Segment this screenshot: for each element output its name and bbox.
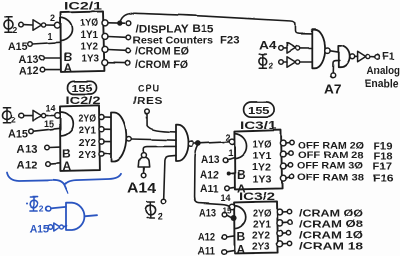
2-input AND gate (with A7) xyxy=(338,45,349,67)
wire A13 to pin 1 xyxy=(228,158,234,160)
IC2/2 output label 2Y3 xyxy=(79,150,97,161)
svg-text:2: 2 xyxy=(50,13,55,23)
blue inverter on A15 xyxy=(53,223,63,231)
svg-text:A7: A7 xyxy=(324,83,342,97)
inverter on A14 (drawn vertical) xyxy=(138,153,149,167)
svg-text:/CROM FØ: /CROM FØ xyxy=(135,59,188,71)
A14 terminal xyxy=(141,173,146,178)
wire A12 to A xyxy=(45,69,61,71)
IC IC2/1 body (74155 demux upper half) xyxy=(61,11,105,72)
wire A13 to B xyxy=(44,57,60,59)
IC3/1 1Y0 output bubble xyxy=(280,140,286,146)
terminal xyxy=(290,140,294,144)
IC2/1 pin number 1 xyxy=(48,32,53,42)
IC3/1 pin number 2 xyxy=(226,133,231,143)
wire xyxy=(286,142,290,144)
A15 terminal xyxy=(28,42,33,47)
IC2/1 1Y1 output bubble xyxy=(102,33,108,39)
A13 terminal xyxy=(222,212,227,217)
IC3/2 output label 2Y1 xyxy=(253,220,271,231)
wire xyxy=(355,55,358,57)
IC IC3/2 body (74155 demux lower half) xyxy=(234,201,278,253)
svg-text:A12: A12 xyxy=(19,65,39,77)
IC2/2 pin 14 bubble xyxy=(55,113,61,119)
clock phi2 input (mid) xyxy=(146,202,163,222)
inverter on phi2 xyxy=(287,57,300,68)
blue wire xyxy=(64,226,67,227)
wire A15 to pin 15 xyxy=(33,128,59,131)
signal label /CRAM 00 xyxy=(299,208,363,220)
input label A12 xyxy=(198,232,215,244)
IC2/1 1Y2 output bubble xyxy=(102,46,108,52)
CPU /RES terminal xyxy=(145,109,150,114)
wire xyxy=(104,128,111,130)
IC3/2 pin number 14 xyxy=(221,193,231,203)
svg-text:1YØ: 1YØ xyxy=(81,18,99,29)
svg-text:A: A xyxy=(237,243,246,256)
IC3/2 pin number 15 xyxy=(223,206,232,216)
svg-text:A15: A15 xyxy=(8,129,28,141)
svg-text:A13: A13 xyxy=(199,208,216,220)
A13 terminal xyxy=(223,158,228,163)
IC3/1 1Y2 output bubble xyxy=(280,163,286,169)
wire xyxy=(286,177,290,178)
wire xyxy=(109,22,125,24)
svg-text:Reset Counters: Reset Counters xyxy=(133,34,213,46)
wire xyxy=(330,50,338,51)
gate output bubble xyxy=(126,137,131,142)
1Y3 terminal xyxy=(125,61,130,66)
wire junction down to IC3/2 pin 14 xyxy=(195,146,230,207)
phi2 terminal xyxy=(279,60,284,65)
junction blob pin 15 xyxy=(231,215,237,221)
input label A15 xyxy=(8,41,28,53)
wire gate to CPU-reset NAND xyxy=(131,139,176,140)
A7 terminal xyxy=(330,73,335,78)
svg-text:2Y1: 2Y1 xyxy=(79,126,97,137)
wire A12 to B xyxy=(226,236,234,237)
IC3/1 pin 2 bubble xyxy=(229,139,234,144)
IC2/1 pin 2 bubble xyxy=(54,22,60,28)
wire A13 to B xyxy=(49,146,60,148)
svg-text:2YØ: 2YØ xyxy=(253,209,271,220)
phi2 terminal xyxy=(19,113,24,118)
A13 terminal xyxy=(45,145,50,150)
terminal xyxy=(286,231,290,235)
blue A15 terminal xyxy=(48,225,52,229)
terminal xyxy=(287,209,291,213)
svg-text:F23: F23 xyxy=(220,35,240,47)
signal label F1 xyxy=(383,51,395,63)
svg-text:Enable: Enable xyxy=(365,78,399,90)
address tag F18 xyxy=(374,152,393,163)
svg-text:/CROM EØ: /CROM EØ xyxy=(135,46,189,58)
svg-text:1Y2: 1Y2 xyxy=(252,163,271,174)
IC2/1 output label 1Y3 xyxy=(82,54,100,65)
wire A11 to A xyxy=(226,250,234,251)
part number oval (155) for IC3 xyxy=(244,102,275,117)
A11 terminal xyxy=(225,186,230,191)
IC2/1 1Y3 output bubble xyxy=(102,60,108,66)
signal label Analog xyxy=(367,65,400,77)
phi2 terminal xyxy=(161,199,166,204)
svg-text:F17: F17 xyxy=(373,162,392,173)
wire xyxy=(108,49,126,52)
wire xyxy=(282,221,288,223)
inverter on A4 xyxy=(287,43,300,54)
svg-text:1YØ: 1YØ xyxy=(253,140,272,151)
blue wire xyxy=(50,207,66,209)
gate output bubble xyxy=(325,48,330,53)
svg-text:15: 15 xyxy=(223,206,232,216)
wire xyxy=(300,61,312,63)
input label A4 xyxy=(259,38,277,52)
terminal xyxy=(289,151,293,155)
IC3/1 output label 1Y3 xyxy=(253,175,272,186)
IC3/2 2Y0 output bubble xyxy=(277,209,283,215)
signal label OFF RAM 30 xyxy=(297,161,363,172)
input label A15 xyxy=(8,129,28,141)
signal label OFF RAM 28 xyxy=(298,150,364,161)
A15 terminal xyxy=(29,129,34,134)
blue tick xyxy=(26,203,28,205)
wire xyxy=(286,152,289,155)
A13 terminal xyxy=(40,56,45,61)
junction node (1Y0 / DISPLAY) xyxy=(117,20,122,25)
IC3/2 pin 14 bubble xyxy=(229,204,234,209)
A12 terminal xyxy=(222,235,227,240)
input label A13 xyxy=(199,208,216,220)
gate output bubble xyxy=(350,54,355,59)
blue phi2 terminal xyxy=(46,206,51,211)
IC2/2 output label 2Y2 xyxy=(79,138,97,149)
svg-text:2: 2 xyxy=(13,25,18,35)
wire /RES down into NAND xyxy=(147,114,176,132)
IC2/1 output label 1Y0 xyxy=(81,18,99,29)
A12 terminal (ink blob) xyxy=(226,172,230,176)
wire A12 to A xyxy=(50,162,60,165)
input label A13 xyxy=(17,144,38,156)
IC U3 section 1 label IC3/1 xyxy=(240,120,277,132)
terminal xyxy=(289,175,293,179)
svg-text:14: 14 xyxy=(46,103,56,113)
svg-text:F16: F16 xyxy=(373,173,394,185)
IC3/2 pin A label xyxy=(237,243,246,256)
clock phi2 input (analog gate) xyxy=(259,54,274,70)
IC3/2 2Y1 output bubble xyxy=(277,220,283,226)
svg-text:OFF RAM 28: OFF RAM 28 xyxy=(298,150,364,161)
blue input label A15 xyxy=(30,224,49,236)
4-input NAND gate (2Y0-2Y3 combine) xyxy=(111,113,126,162)
blue AND gate (note sketch) xyxy=(66,203,84,230)
IC2/1 pin number 2 xyxy=(50,13,55,23)
svg-text:A15: A15 xyxy=(8,41,28,53)
blue wire output xyxy=(84,215,97,216)
wire xyxy=(282,211,287,213)
svg-text:A13: A13 xyxy=(201,154,220,166)
wire xyxy=(104,141,111,143)
IC U2 section 2 label IC2/2 xyxy=(66,95,101,107)
wire xyxy=(282,232,286,234)
wire A13 to pin 15 xyxy=(227,215,231,217)
svg-text:1: 1 xyxy=(228,148,233,158)
wire xyxy=(46,24,55,26)
svg-text:155: 155 xyxy=(72,84,94,95)
svg-text:A12: A12 xyxy=(198,232,215,244)
signal label /CROM E0 xyxy=(135,46,189,58)
input label A12 xyxy=(19,65,39,77)
svg-text:1Y2: 1Y2 xyxy=(81,42,99,53)
IC3/1 pin number 1 xyxy=(228,148,233,158)
svg-text:/RES: /RES xyxy=(133,95,163,107)
blue clock phi2 (note sketch) xyxy=(30,197,44,214)
signal label /RES xyxy=(133,95,163,107)
F1 terminal xyxy=(375,55,380,60)
IC3/1 pin B label xyxy=(237,168,246,182)
IC3/2 2Y2 output bubble xyxy=(277,230,283,236)
input label A12 xyxy=(17,160,38,172)
input label A13 xyxy=(201,154,220,166)
A11 terminal xyxy=(222,250,227,255)
svg-text:B: B xyxy=(237,168,246,182)
svg-text:OFF RAM 38: OFF RAM 38 xyxy=(297,173,364,184)
svg-text:15: 15 xyxy=(44,119,54,129)
svg-text:1Y3: 1Y3 xyxy=(82,54,100,65)
IC2/1 pin B label xyxy=(64,50,73,64)
terminal xyxy=(288,220,292,224)
address tag F19 xyxy=(374,142,393,153)
clock phi2 input (IC2/2) xyxy=(3,108,17,125)
svg-text:2: 2 xyxy=(39,204,44,214)
IC3/2 output label 2Y0 xyxy=(253,209,271,220)
long wire from DISPLAY node to analog gate xyxy=(120,13,312,34)
svg-text:F1: F1 xyxy=(383,51,395,63)
svg-text:1Y1: 1Y1 xyxy=(253,151,272,162)
svg-text:2YØ: 2YØ xyxy=(79,114,97,125)
svg-text:2: 2 xyxy=(158,211,163,221)
input label A12 xyxy=(200,170,219,182)
IC2/1 output label 1Y2 xyxy=(81,42,99,53)
svg-text:A12: A12 xyxy=(200,170,219,182)
1Y2 terminal xyxy=(126,48,131,53)
IC3/1 output label 1Y2 xyxy=(252,163,271,174)
svg-text:2Y2: 2Y2 xyxy=(252,231,270,242)
IC2/2 2Y1 output bubble xyxy=(99,127,104,132)
IC2/1 1Y0 output bubble xyxy=(102,20,108,26)
IC2/2 2Y3 output bubble xyxy=(99,151,104,156)
svg-text:2Y3: 2Y3 xyxy=(79,150,97,161)
svg-text:OFF RAM 3Ø: OFF RAM 3Ø xyxy=(297,161,363,172)
wire xyxy=(282,243,287,245)
signal label /DISPLAY B15 xyxy=(136,23,214,35)
wire A11 to A xyxy=(229,186,234,189)
svg-text:A13: A13 xyxy=(17,144,38,156)
signal label F23 xyxy=(220,35,240,47)
signal label Reset Counters xyxy=(133,34,213,46)
wire xyxy=(300,47,312,49)
input label A11 xyxy=(198,246,215,256)
IC2/1 pin A label xyxy=(64,61,73,75)
IC3/2 pin B label xyxy=(237,230,246,244)
svg-text:CPU: CPU xyxy=(138,84,160,95)
svg-text:A14: A14 xyxy=(127,180,157,197)
IC IC3/1 body (74155 demux upper half) xyxy=(234,130,282,189)
IC3/1 1Y3 output bubble xyxy=(280,175,286,181)
IC3/2 output label 2Y2 xyxy=(252,231,270,242)
wire xyxy=(283,47,287,49)
IC2/1 output label 1Y1 xyxy=(81,30,99,41)
svg-text:14: 14 xyxy=(221,193,231,203)
1Y0 terminal xyxy=(126,21,131,26)
IC IC2/2 body (74155 demux lower half) xyxy=(60,105,100,171)
svg-text:A11: A11 xyxy=(200,184,219,196)
svg-text:2Y1: 2Y1 xyxy=(253,220,271,231)
IC3/1 pin A label xyxy=(237,182,246,196)
svg-text:155: 155 xyxy=(248,105,270,117)
input label A11 xyxy=(200,184,219,196)
wire xyxy=(108,36,126,39)
wire xyxy=(46,115,55,117)
wire xyxy=(24,115,33,117)
IC3/1 output label 1Y1 xyxy=(253,151,272,162)
A4 terminal xyxy=(279,46,284,51)
terminal xyxy=(287,241,291,245)
svg-text:2: 2 xyxy=(11,115,16,125)
IC3/2 output label 2Y3 xyxy=(252,242,270,253)
svg-text:/CRAM 18: /CRAM 18 xyxy=(299,241,363,253)
signal label /CRAM 08 xyxy=(299,219,363,231)
wire xyxy=(23,24,32,26)
IC2/2 output label 2Y0 xyxy=(79,114,97,125)
wire A12 to B xyxy=(230,172,234,175)
IC2/2 pin number 15 xyxy=(44,119,54,129)
input label A7 xyxy=(324,83,342,97)
clock phi2 input (top left) xyxy=(4,17,18,35)
wire xyxy=(104,116,111,118)
svg-text:A15: A15 xyxy=(30,224,49,236)
svg-text:2: 2 xyxy=(269,60,274,70)
IC2/2 2Y0 output bubble xyxy=(99,114,104,119)
svg-text:2Y2: 2Y2 xyxy=(79,138,97,149)
IC U3 section 2 label IC3/2 xyxy=(239,191,275,203)
inverter on phi2 to IC2/1 pin 2 xyxy=(33,20,46,31)
junction node (strobe) xyxy=(195,141,201,147)
part number oval (155) for IC2 xyxy=(68,81,97,94)
IC2/2 pin number 14 xyxy=(46,103,56,113)
svg-text:2Y3: 2Y3 xyxy=(252,242,270,253)
svg-text:A: A xyxy=(63,159,72,173)
signal label /CRAM 18 xyxy=(299,241,363,253)
A12 terminal xyxy=(46,161,51,166)
signal label CPU xyxy=(138,84,160,95)
signal label OFF RAM 38 xyxy=(297,173,364,184)
signal label Enable xyxy=(365,78,399,90)
gate output bubble xyxy=(188,141,193,146)
wire xyxy=(283,61,287,63)
IC3/1 1Y1 output bubble xyxy=(280,151,286,157)
IC2/2 output label 2Y1 xyxy=(79,126,97,137)
wire inverter output up into NAND xyxy=(143,146,176,152)
blue underbrace annotation xyxy=(7,173,121,193)
svg-text:A4: A4 xyxy=(259,38,277,52)
wire xyxy=(286,165,289,166)
signal label OFF RAM 20 xyxy=(298,141,364,152)
inverter on phi2 to IC2/2 pin 14 xyxy=(33,110,46,121)
svg-text:A: A xyxy=(64,61,73,75)
terminal xyxy=(288,163,292,167)
A12 terminal xyxy=(40,67,45,72)
input label A13 xyxy=(19,54,39,66)
svg-text:1: 1 xyxy=(48,32,53,42)
3-input NAND gate (analog enable) xyxy=(312,30,325,69)
wire A7 up into gate xyxy=(333,60,340,73)
wire xyxy=(370,56,375,58)
wire to IC3/1 pin 2 xyxy=(194,142,230,144)
wire phi2 up into NAND xyxy=(164,155,176,198)
IC3/1 output label 1Y0 xyxy=(253,140,272,151)
IC2/2 pin A label xyxy=(63,159,72,173)
IC U2 section 1 label IC2/1 xyxy=(64,1,102,13)
IC2/2 2Y2 output bubble xyxy=(99,139,104,144)
svg-text:Analog: Analog xyxy=(367,65,400,77)
wire xyxy=(108,62,125,64)
input label A14 xyxy=(127,180,157,197)
IC2/2 pin B label xyxy=(62,147,71,161)
signal label /CRAM 10 xyxy=(299,230,363,242)
wire A15 to pin 1 xyxy=(32,42,59,44)
address tag F17 xyxy=(373,162,392,173)
svg-text:1Y3: 1Y3 xyxy=(253,175,272,186)
svg-text:1Y1: 1Y1 xyxy=(81,30,99,41)
4-input NAND gate (chip select strobe) xyxy=(176,125,189,161)
phi2 terminal xyxy=(19,22,24,27)
svg-text:A12: A12 xyxy=(17,160,38,172)
address tag F16 xyxy=(373,173,394,185)
IC3/2 2Y3 output bubble xyxy=(277,241,283,247)
output inverter xyxy=(358,51,370,62)
1Y1 terminal xyxy=(127,35,132,40)
svg-text:B: B xyxy=(237,230,246,244)
wire xyxy=(143,167,145,173)
wire xyxy=(104,153,111,155)
signal label /CROM F0 xyxy=(135,59,188,71)
svg-text:A11: A11 xyxy=(198,246,215,256)
